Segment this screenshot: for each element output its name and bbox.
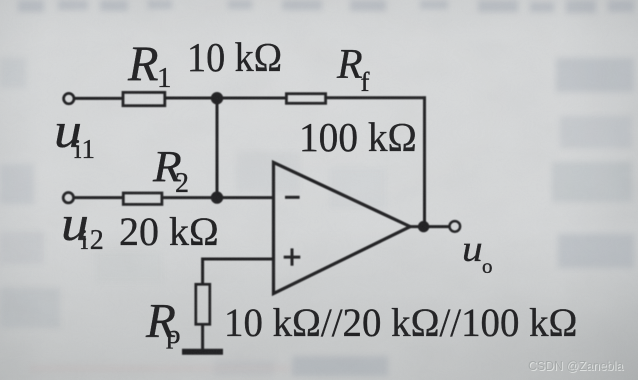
- input terminal ui2: [63, 193, 73, 203]
- watermark CSDN: [528, 359, 623, 372]
- wire op-amp + input left: [203, 258, 274, 261]
- input terminal ui1: [64, 93, 74, 103]
- label ui1 : subscript i1: [74, 136, 95, 163]
- node N3 output junction dot: [418, 221, 429, 232]
- label ui2 : u: [61, 198, 89, 248]
- resistor Rf: [286, 94, 325, 104]
- label ui2 : subscript i2: [81, 227, 106, 255]
- label uo : subscript o: [482, 256, 493, 277]
- plus sign (non-inverting input): [284, 256, 301, 259]
- node N2 junction dot: [211, 191, 223, 203]
- label Rf : R: [337, 44, 363, 86]
- output terminal uo: [450, 221, 461, 232]
- wire Rf to corner: [327, 96, 427, 99]
- label 10k//20k//100k (Rp value): [224, 303, 577, 343]
- ghost faint mid-page: [236, 152, 300, 192]
- resistor Rp: [196, 284, 210, 324]
- wire Rp to ground: [201, 323, 204, 351]
- ghost left edge: [0, 58, 26, 88]
- label R2 : R: [153, 145, 182, 189]
- label 20 kOhm (R2 value): [119, 212, 219, 252]
- label R1 : subscript 1: [157, 64, 172, 93]
- label uo : u: [462, 231, 483, 268]
- wire ui1 to R1: [74, 97, 123, 100]
- wire down to Rp: [201, 258, 204, 286]
- faint pink bleed row bottom-left: [30, 365, 290, 372]
- wire op-amp output: [409, 225, 449, 228]
- wire R2 through node N2 to op-amp inverting input: [162, 196, 274, 199]
- label R1 : R: [128, 38, 159, 88]
- label Rf : subscript f: [361, 69, 370, 96]
- label R2 : subscript 2: [175, 170, 189, 198]
- resistor R2: [123, 193, 162, 204]
- ground: [182, 349, 223, 355]
- wire node N1 down to node N2: [216, 98, 219, 198]
- label Rp : subscript p: [166, 322, 181, 348]
- resistor R1: [123, 92, 165, 105]
- minus sign (inverting input): [285, 196, 300, 199]
- wire R1 to node N1 and on to Rf: [165, 97, 286, 100]
- node N1 junction dot: [211, 92, 223, 104]
- label 100 kOhm (Rf value): [299, 117, 417, 158]
- ghost bottom center: [292, 356, 388, 376]
- label ui1 : u: [54, 105, 82, 155]
- label 10 kOhm (R1 value): [187, 37, 282, 78]
- ghost top strip: [18, 0, 44, 12]
- wire ui2 to R2: [74, 196, 123, 199]
- op-amp U1 triangle: [274, 162, 411, 293]
- ghost right column: [556, 58, 634, 92]
- label Rp : R: [146, 296, 176, 345]
- wire feedback vertical: [423, 96, 426, 226]
